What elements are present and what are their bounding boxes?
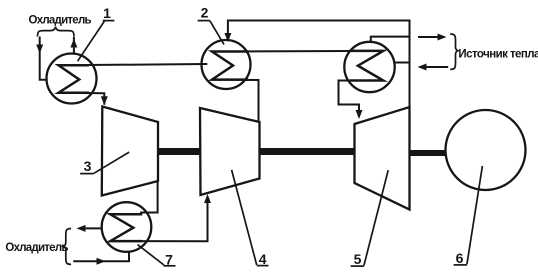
underline of label 1 <box>103 20 115 22</box>
HX1 coil zigzag <box>59 65 90 92</box>
svg-text:Охладитель: Охладитель <box>29 14 92 26</box>
HX2 coil zigzag <box>212 52 248 80</box>
svg-text:5: 5 <box>354 251 362 267</box>
HX3 coil zigzag (mirrored) <box>349 51 383 81</box>
heat source outflow arrow <box>418 36 438 38</box>
arrowhead into turbine 5 <box>356 110 363 119</box>
svg-text:Источник тепла: Источник тепла <box>458 49 538 61</box>
heat exchanger HX1 (precooler 1) <box>47 54 97 104</box>
svg-text:Охладитель: Охладитель <box>5 242 68 254</box>
cooler loop at HX1: over-brace <box>38 27 75 37</box>
generator 6 circle <box>446 110 526 190</box>
arrowhead into compressor 4 bottom <box>204 194 211 203</box>
heat exchanger HX7 (intercooler 7) <box>102 202 152 252</box>
pointer line of label 4 <box>232 170 257 265</box>
pointer line of label 6 <box>467 166 483 264</box>
pointer line of label 2 <box>210 21 224 45</box>
compressor 4 (HP) trapezoid <box>200 108 260 195</box>
wire HX2 to HX3 (cold side, with coil top bars) <box>212 50 383 53</box>
turbine 5 trapezoid <box>355 107 410 210</box>
cooler outflow arrow from HX7 <box>85 227 102 229</box>
wire compressor 3 outlet down to HX7 <box>140 180 158 212</box>
heat exchanger HX3 (heater) <box>344 42 394 92</box>
right brace for heat source <box>450 34 458 69</box>
compressor 3 (LP) trapezoid <box>102 107 158 196</box>
underline of label 6 <box>454 264 467 266</box>
shaft segment compressor4-turbine5 <box>260 148 355 155</box>
svg-text:7: 7 <box>165 251 173 267</box>
wire HX2 bottom to compressor 4 top <box>212 80 259 123</box>
svg-text:6: 6 <box>456 250 464 266</box>
wire HX3 bottom to turbine 5 inlet <box>339 81 384 118</box>
underline of label 3 <box>80 173 94 175</box>
arrowhead into compressor 3 <box>101 96 108 105</box>
HX7 coil zigzag <box>110 214 142 241</box>
cooler water inlet line with up arrow <box>73 37 75 54</box>
pointer line of label 3 <box>94 152 129 173</box>
cooler loop at HX7: left brace <box>63 229 71 265</box>
underline of label 4 <box>257 265 269 267</box>
wire HX1 to HX2 (regenerator hot-side outlet, with HX1 coil top bar) <box>59 64 208 65</box>
pointer line of label 5 <box>364 170 388 265</box>
wire HX7 to compressor 4 inlet (with HX7 coil bottom bar) <box>110 196 207 241</box>
top rail: turbine exhaust to regenerator HX2 <box>228 21 410 108</box>
HX3 top stub to heat-source riser <box>371 37 410 42</box>
svg-text:2: 2 <box>201 4 209 20</box>
pointer line of label 7 <box>138 245 164 266</box>
shaft segment compressor3-compressor4 <box>158 148 200 155</box>
underline of label 7 <box>164 265 176 267</box>
arrowhead into HX2 top <box>224 33 231 42</box>
cooler inflow arrow into HX7 <box>73 252 129 261</box>
HX3 right stub <box>395 62 410 64</box>
cooler water outlet line with down arrow <box>40 37 47 80</box>
svg-text:4: 4 <box>259 251 267 267</box>
underline of label 2 <box>198 20 210 22</box>
shaft segment turbine5-generator6 <box>410 150 447 156</box>
heat exchanger HX2 (regenerator 2) <box>202 40 251 89</box>
underline of label 5 <box>351 265 364 267</box>
svg-text:3: 3 <box>84 158 92 174</box>
heat source inflow arrow <box>426 66 448 68</box>
wire HX1 bottom to compressor 3 inlet <box>59 93 105 105</box>
pointer line of label 1 <box>78 21 105 61</box>
svg-text:1: 1 <box>103 5 111 21</box>
